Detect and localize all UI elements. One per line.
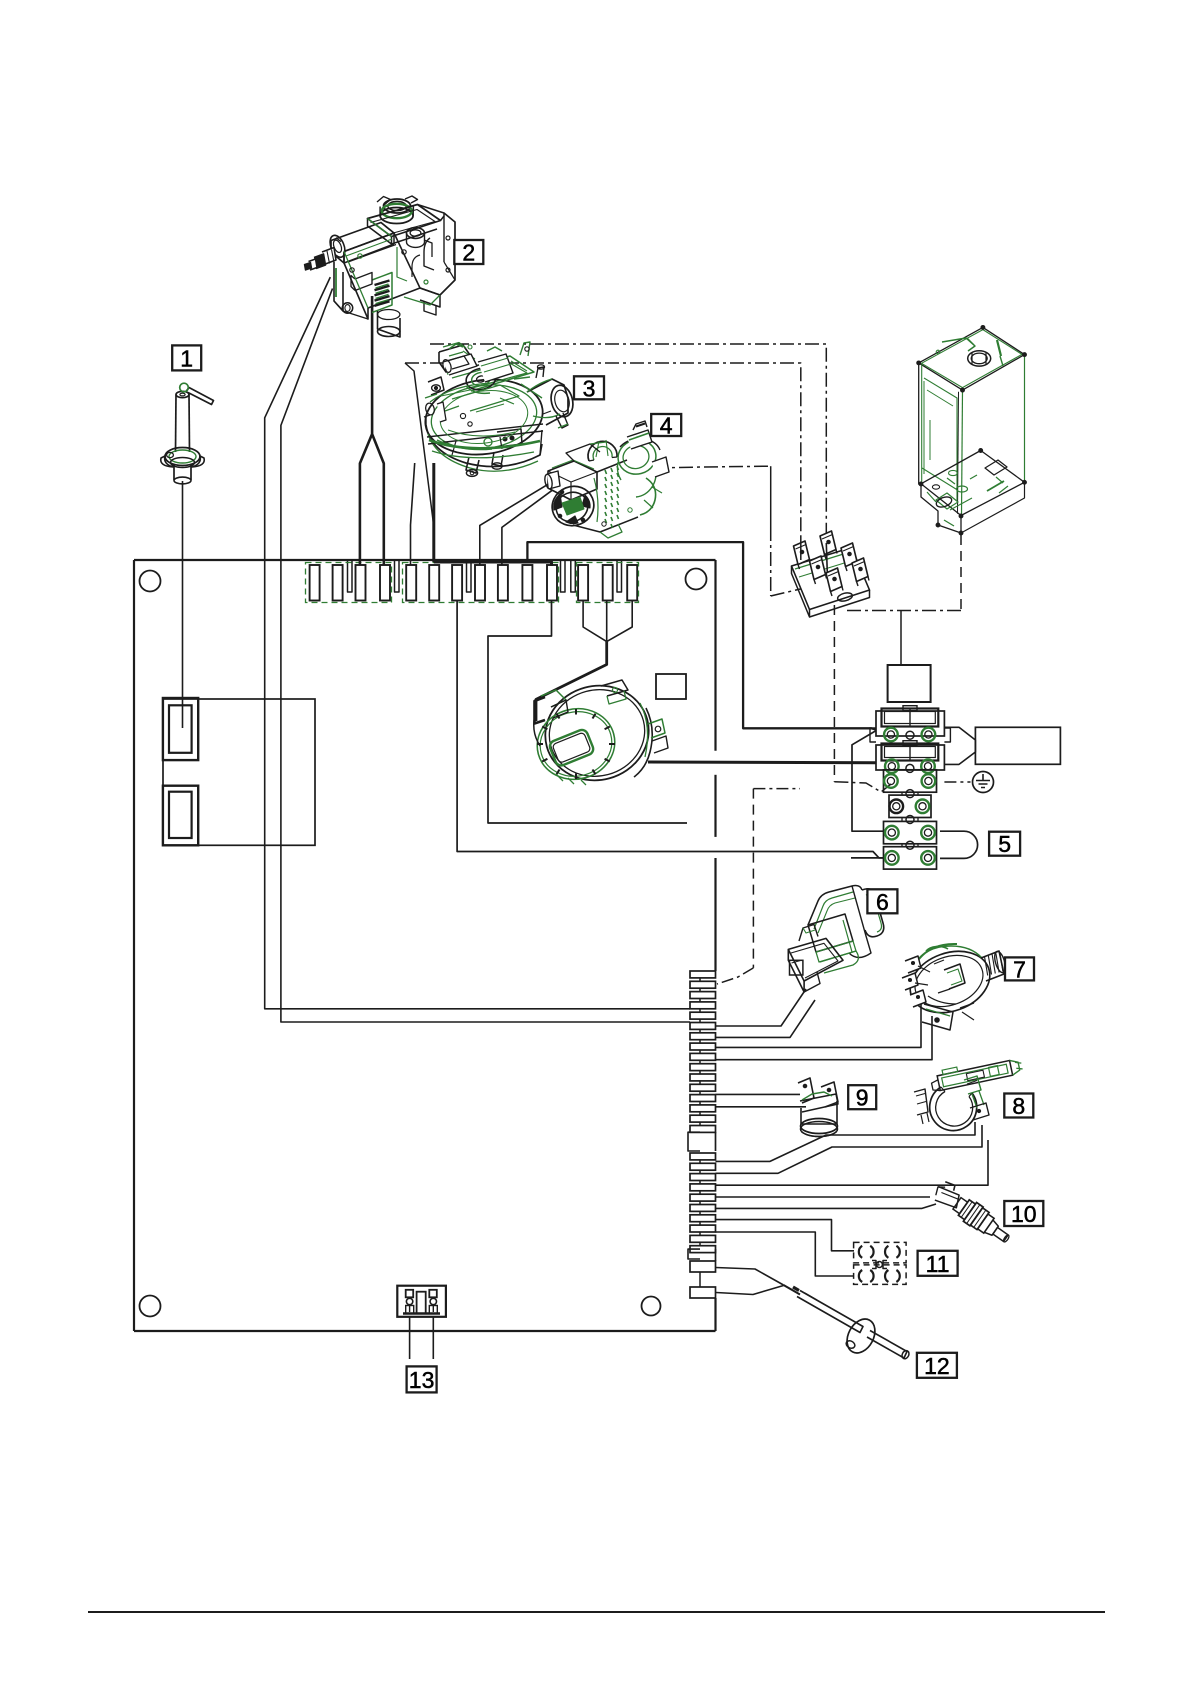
mounting hole top-right	[686, 569, 707, 590]
probe item 12	[784, 1285, 801, 1295]
pump motor item 4	[588, 441, 617, 461]
wire electrode to relay	[182, 481, 184, 728]
wire A pin10 to terminal block	[527, 542, 876, 729]
dash-dot chassis to spades	[847, 610, 961, 612]
central pump	[535, 674, 660, 792]
connector X1 green dashed box A	[306, 563, 392, 603]
relay K2 outer	[163, 786, 198, 846]
wire pump enclosure from pin11	[488, 601, 687, 824]
wire along strip top thick	[434, 562, 552, 566]
wire pin7 to block pair6	[457, 601, 886, 858]
wire tooth to item8 c	[716, 1140, 989, 1185]
wire valve left A	[265, 277, 690, 1009]
wire tooth to item7 a	[716, 999, 922, 1047]
svg-text:6: 6	[876, 889, 889, 915]
wire pump to block thick	[648, 761, 876, 765]
wire valve left B	[281, 289, 690, 1023]
svg-text:1: 1	[180, 345, 193, 371]
spade terminal strip	[792, 548, 870, 610]
connector X1 green dashed box C	[577, 563, 639, 603]
dash-dot into block pair3	[834, 782, 891, 792]
left connector housing box	[163, 699, 315, 845]
svg-text:12: 12	[924, 1353, 950, 1379]
wire item4 1	[480, 484, 549, 565]
limit thermostat item 9	[798, 1078, 814, 1103]
connector item 13	[397, 1286, 446, 1317]
label box 10	[1004, 1201, 1043, 1227]
terminal box near pump	[656, 674, 686, 699]
svg-text:9: 9	[856, 1085, 869, 1111]
pressure switch item 7	[902, 941, 999, 1024]
immersion sensor item 10	[930, 1178, 1016, 1248]
connector symbol item 11	[854, 1242, 907, 1263]
dashed boundary right of board	[752, 789, 754, 968]
flow switch item 6	[808, 886, 862, 926]
solid link fan corner	[405, 363, 434, 525]
dash-dot item4 right	[654, 466, 771, 468]
footer rule	[88, 1611, 1105, 1613]
wire tooth to item11 b	[716, 1232, 855, 1276]
label box 13	[407, 1366, 437, 1393]
wire tooth to item10 a	[716, 1196, 931, 1198]
wire tooth to item8 a	[716, 1122, 976, 1161]
dash-dot diag to spade strip	[771, 586, 813, 596]
link to top square	[900, 611, 902, 665]
wire tooth to item12 b	[716, 1286, 784, 1295]
label box 2	[454, 240, 483, 266]
wire item13 right pin	[432, 1317, 434, 1359]
mounting hole top-left	[140, 571, 161, 592]
svg-text:4: 4	[660, 413, 673, 439]
wire tooth to item9 a	[716, 1093, 801, 1095]
dashed spade base down	[833, 605, 835, 782]
connector X1 green dashed box B	[403, 563, 559, 603]
dashed chassis link down	[960, 535, 962, 611]
wire fan 2 thick	[432, 463, 435, 562]
PCB board outline	[134, 559, 716, 561]
wire tooth to item9 b	[716, 1106, 807, 1108]
wire tooth to item6 a	[716, 989, 807, 1026]
label box 8	[1004, 1093, 1033, 1119]
wire fan 1	[411, 463, 415, 565]
wire into spade s2	[826, 543, 827, 573]
wire valve down split	[360, 296, 384, 565]
dash-dot stub near item6	[753, 788, 800, 790]
dash-dot boundary A2 solid	[825, 527, 827, 543]
wire tooth to item8 b	[716, 1125, 983, 1173]
svg-text:13: 13	[409, 1367, 435, 1393]
wire block jog	[852, 731, 886, 832]
wire into spade s1 dashdot	[800, 538, 802, 560]
wire tooth to item11 a	[716, 1220, 855, 1251]
mounting hole bottom-right	[642, 1297, 661, 1316]
wire V pump bundle b	[606, 601, 608, 642]
chassis frame	[919, 327, 1025, 390]
solid item4 corner	[770, 466, 772, 527]
wire tooth to item7 b	[716, 1016, 933, 1060]
label box 12	[917, 1353, 957, 1379]
dash-dot ground link	[944, 781, 970, 783]
wire tooth to item6 b	[716, 1000, 816, 1037]
wire V pump bundle c	[607, 601, 633, 642]
wire item4 2	[502, 490, 553, 565]
dash-dot boundary B	[405, 363, 801, 538]
svg-text:3: 3	[583, 375, 596, 401]
dash-dot boundary A	[430, 344, 826, 527]
svg-text:11: 11	[926, 1251, 950, 1277]
wire pump feed thick	[536, 642, 607, 721]
svg-text:5: 5	[998, 831, 1011, 857]
wire tooth to item10 b	[716, 1204, 937, 1208]
wire tooth to item12 a	[716, 1268, 784, 1286]
label box 5	[989, 831, 1020, 857]
svg-text:8: 8	[1012, 1093, 1025, 1119]
relay K1 inner	[169, 705, 192, 753]
clip sensor item 8	[929, 1054, 1023, 1092]
label box 1	[172, 345, 201, 371]
pump connector bracket	[535, 697, 546, 724]
terminal block item 5	[888, 665, 931, 702]
connector strip X1 pins	[310, 565, 320, 601]
wire into block pair6 left	[851, 857, 886, 859]
electrode item 1	[176, 391, 189, 397]
label box 11	[918, 1251, 958, 1277]
label box 4	[651, 413, 681, 439]
gas valve item 2	[384, 199, 411, 213]
svg-text:10: 10	[1011, 1201, 1037, 1227]
dash-dot item4 down	[770, 527, 772, 596]
wire V pump bundle a	[583, 601, 607, 642]
relay K2 inner	[169, 792, 192, 838]
relay K1 outer	[163, 698, 198, 760]
edge connector X2 comb teeth	[690, 971, 716, 978]
mounting hole bottom-left	[140, 1296, 161, 1317]
label box 6	[867, 889, 897, 915]
fan item 3	[420, 372, 547, 462]
svg-text:2: 2	[462, 240, 475, 266]
wire item13 left pin	[409, 1317, 411, 1359]
label box 9	[848, 1085, 876, 1111]
dash-dot boundary corner to tooth	[717, 968, 753, 984]
label box 3	[574, 375, 604, 401]
svg-text:7: 7	[1013, 956, 1026, 982]
label box 7	[1005, 956, 1034, 982]
